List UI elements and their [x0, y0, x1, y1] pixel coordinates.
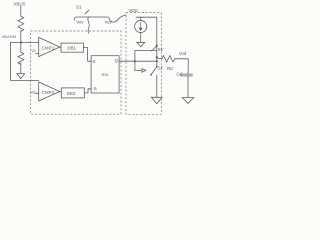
svg-text:Cd: Cd	[176, 72, 182, 77]
svg-text:DB1: DB1	[67, 46, 76, 51]
svg-text:S1: S1	[76, 5, 82, 10]
svg-text:Vov: Vov	[76, 19, 84, 24]
svg-text:Q: Q	[115, 58, 119, 63]
svg-text:CMP2: CMP2	[42, 90, 55, 95]
svg-text:S2': S2'	[157, 65, 163, 70]
svg-text:R: R	[94, 87, 97, 92]
svg-text:V2: V2	[30, 90, 36, 95]
svg-text:Vuv: Vuv	[104, 19, 112, 24]
svg-text:VBUS/M: VBUS/M	[2, 35, 16, 39]
svg-text:DB2: DB2	[67, 91, 76, 96]
svg-text:S: S	[93, 59, 96, 64]
svg-text:VBUS: VBUS	[13, 2, 25, 7]
svg-text:VDD: VDD	[128, 8, 137, 13]
svg-text:Vod: Vod	[179, 51, 187, 56]
svg-text:V1: V1	[31, 48, 37, 53]
svg-text:Rd: Rd	[167, 66, 173, 71]
svg-text:RSL: RSL	[102, 72, 110, 77]
svg-text:CMP1: CMP1	[42, 45, 55, 50]
svg-text:S1': S1'	[158, 47, 164, 52]
